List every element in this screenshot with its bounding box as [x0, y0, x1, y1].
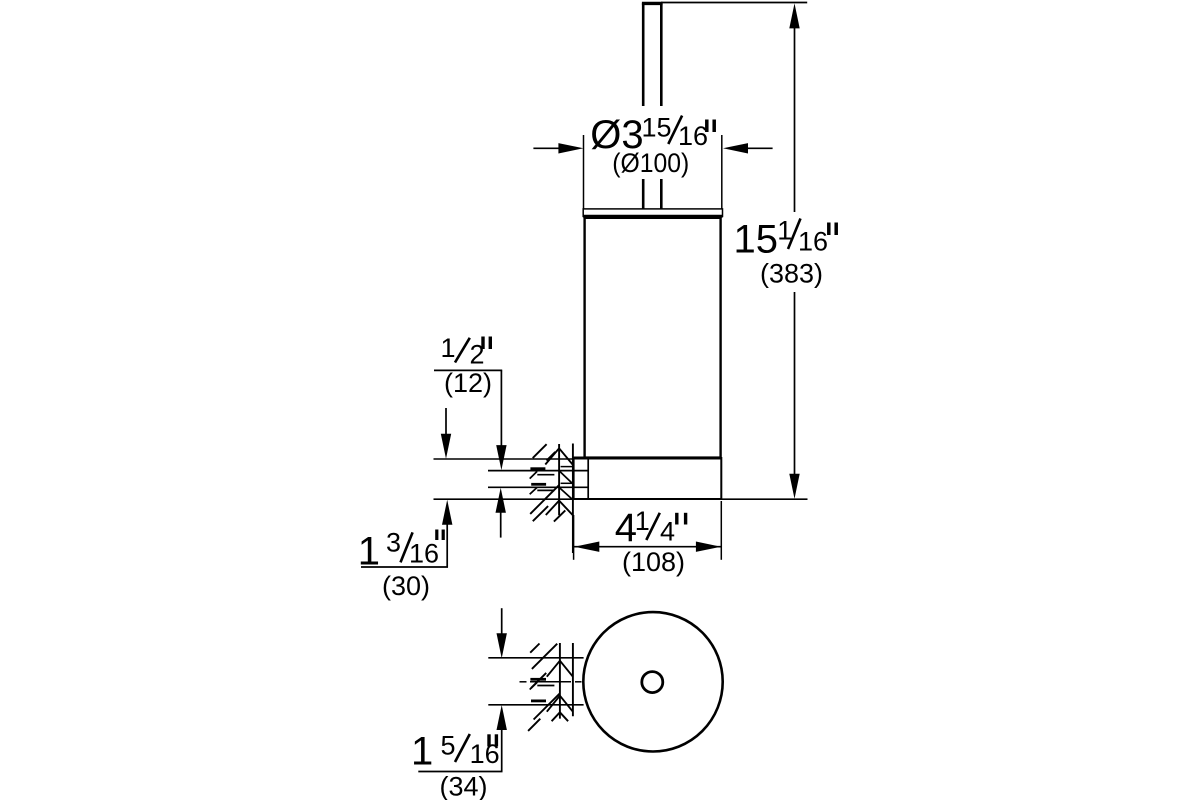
- wall bracket: [574, 458, 722, 499]
- dimension 4 1/4 (108): [574, 501, 722, 577]
- svg-text:(108): (108): [622, 547, 685, 577]
- svg-text:1: 1: [411, 729, 433, 773]
- brush handle rod: [642, 3, 663, 209]
- svg-text:15: 15: [734, 218, 779, 262]
- svg-text:16: 16: [409, 539, 439, 569]
- bottom view: center hole: [642, 672, 663, 693]
- svg-text:(12): (12): [444, 368, 492, 398]
- svg-text:(30): (30): [382, 571, 430, 601]
- svg-text:16: 16: [798, 227, 828, 257]
- extension line at bracket top: [434, 458, 574, 460]
- svg-text:(34): (34): [440, 771, 488, 800]
- svg-text:(383): (383): [760, 259, 823, 289]
- dimension 1/2 (12): [434, 333, 507, 538]
- bottom view: holder circle: [583, 612, 722, 751]
- dimension 1 5/16 (34): [411, 608, 507, 800]
- centerline (bottom view): [520, 681, 582, 683]
- svg-text:4: 4: [660, 517, 675, 547]
- lid: [583, 209, 722, 217]
- dimension Ø3 15/16 (Ø100): [533, 106, 772, 209]
- svg-text:(Ø100): (Ø100): [612, 148, 689, 178]
- wall symbol (bottom view): [528, 643, 573, 731]
- svg-text:1: 1: [358, 529, 380, 573]
- svg-text:15: 15: [642, 113, 672, 143]
- svg-text:4: 4: [615, 506, 637, 550]
- svg-text:1: 1: [441, 333, 456, 363]
- mounting stem (bottom view): [488, 658, 583, 705]
- extension line at bracket bottom: [434, 498, 808, 500]
- container body: [574, 218, 722, 458]
- dimension 15 1/16 (383): [734, 3, 837, 498]
- svg-text:1: 1: [635, 506, 650, 536]
- dimension 1 3/16 (30): [358, 408, 453, 601]
- top reference line: [661, 2, 807, 4]
- wall symbol (side view): [530, 444, 573, 554]
- svg-text:3: 3: [386, 528, 401, 558]
- mounting stem (side view): [488, 471, 588, 488]
- svg-text:5: 5: [441, 730, 456, 760]
- svg-text:16: 16: [678, 121, 708, 151]
